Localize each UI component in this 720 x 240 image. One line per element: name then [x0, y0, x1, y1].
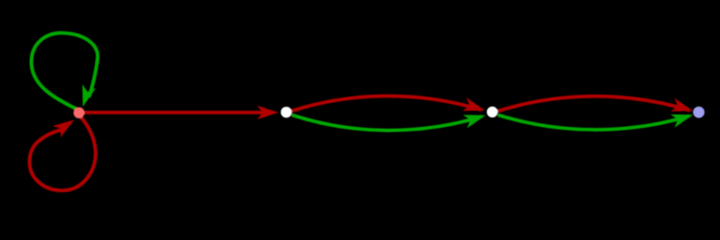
arrowhead of red self-loop — [53, 114, 79, 138]
arrowhead of red edge C to D — [670, 98, 695, 118]
node D (end, lavender) — [693, 107, 704, 118]
arrowhead of green edge C to D — [670, 108, 695, 128]
green curved edge C to D (lower) — [498, 115, 690, 130]
red self-loop at node A — [30, 118, 96, 191]
arrowhead of red edge B to C — [462, 98, 487, 118]
green self-loop at node A — [31, 33, 97, 110]
node A (start, salmon) — [74, 107, 85, 118]
node B (white) — [281, 107, 292, 118]
arrowhead of green self-loop — [76, 84, 96, 109]
red curved edge C to D (upper) — [498, 96, 690, 111]
red straight edge A to B — [84, 111, 268, 115]
arrowhead of green edge B to C — [463, 109, 488, 129]
arrowhead of straight edge A to B — [257, 106, 279, 120]
node C (white) — [487, 107, 498, 118]
green curved edge B to C (lower) — [292, 115, 482, 130]
red curved edge B to C (upper) — [292, 96, 482, 111]
